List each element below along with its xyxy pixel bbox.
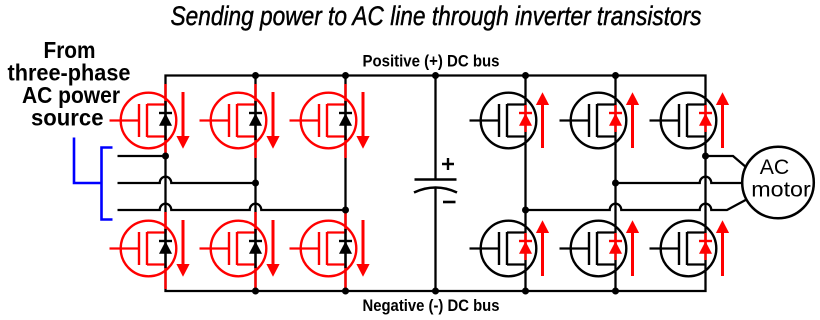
transistor Q12 (lower right bank) — [650, 221, 717, 277]
current arrow at Q1 (down) — [176, 92, 189, 149]
junction on positive bus x=435.5 — [432, 72, 439, 79]
junction motor lead / leg 6 — [702, 153, 709, 160]
junction on negative bus x=435.5 — [432, 288, 439, 295]
wire: phase A line — [118, 155, 166, 157]
current arrow at Q6 (down) — [356, 220, 369, 277]
capacitor C1 top plate — [415, 178, 457, 181]
capacitor C1 curved plate — [414, 188, 457, 193]
wire: motor lead from leg 6 — [706, 156, 747, 168]
current arrow at Q7 (up) — [536, 92, 549, 148]
body diode of transistor Q1 (red, upper left bank) — [159, 101, 172, 140]
junction on positive bus x=255.5 — [252, 72, 259, 79]
svg-text:AC: AC — [760, 155, 790, 179]
transistor Q6 (red, lower left bank) — [290, 212, 357, 289]
wire: motor lead from leg 4 — [526, 200, 747, 211]
body diode of transistor Q12 (lower right bank) — [699, 233, 712, 260]
junction on positive bus x=615.5 — [612, 72, 619, 79]
wire: capacitor leg lower — [434, 188, 436, 291]
body diode of transistor Q10 (lower right bank) — [519, 233, 532, 260]
junction on negative bus x=255.5 — [252, 288, 259, 295]
wire: leg 4 vertical — [524, 76, 526, 292]
current arrow at Q8 (up) — [626, 92, 639, 148]
current arrow at Q2 (down) — [266, 92, 279, 149]
AC motor — [742, 147, 814, 219]
capacitor C1 polarity + — [442, 158, 454, 170]
body diode of transistor Q6 (red, lower left bank) — [339, 229, 352, 268]
body diode of transistor Q11 (lower right bank) — [609, 233, 622, 260]
wire: negative DC bus — [166, 277, 706, 292]
current arrow at Q9 (up) — [716, 92, 729, 148]
wire: leg 5 vertical — [614, 76, 616, 292]
label: From three-phase AC power source — [8, 37, 131, 131]
capacitor C1 polarity - — [443, 201, 456, 204]
svg-text:motor: motor — [751, 178, 811, 202]
junction motor lead / leg 4 — [522, 207, 529, 214]
wire: leg 3 vertical — [344, 76, 346, 292]
junction phase B / leg 2 — [252, 180, 259, 187]
transistor Q1 (red, upper left bank) — [110, 84, 177, 158]
body diode of transistor Q7 (upper right bank) — [519, 105, 532, 132]
three-phase source cable (blue) — [74, 138, 113, 220]
current arrow at Q11 (up) — [626, 220, 639, 276]
svg-text:Sending power to AC line throu: Sending power to AC line through inverte… — [171, 1, 702, 31]
transistor Q11 (lower right bank) — [560, 221, 627, 277]
body diode of transistor Q4 (red, lower left bank) — [159, 229, 172, 268]
body diode of transistor Q3 (red, upper left bank) — [339, 101, 352, 140]
svg-text:source: source — [31, 105, 104, 131]
transistor Q5 (red, lower left bank) — [200, 212, 267, 289]
svg-text:Negative (-) DC bus: Negative (-) DC bus — [363, 296, 500, 315]
body diode of transistor Q5 (red, lower left bank) — [249, 229, 262, 268]
transistor Q4 (red, lower left bank) — [110, 212, 177, 289]
wire: positive DC bus — [166, 76, 706, 93]
wire: leg 2 vertical — [254, 76, 256, 292]
junction on negative bus x=525.5 — [522, 288, 529, 295]
wire: leg 6 vertical — [704, 93, 706, 277]
wire: motor lead from leg 5 — [616, 177, 742, 183]
current arrow at Q12 (up) — [716, 220, 729, 276]
current arrow at Q10 (up) — [536, 220, 549, 276]
transistor Q8 (upper right bank) — [560, 93, 627, 149]
junction on negative bus x=615.5 — [612, 288, 619, 295]
junction phase C / leg 3 — [342, 207, 349, 214]
transistor Q10 (lower right bank) — [470, 221, 537, 277]
transistor Q3 (red, upper left bank) — [290, 84, 357, 158]
junction on positive bus x=345.5 — [342, 72, 349, 79]
svg-text:Positive (+) DC bus: Positive (+) DC bus — [363, 52, 500, 71]
junction phase A / leg 1 — [162, 153, 169, 160]
transistor Q2 (red, upper left bank) — [200, 84, 267, 158]
wire: phase B line — [118, 177, 256, 183]
wire: phase C line — [118, 204, 346, 210]
current arrow at Q5 (down) — [266, 220, 279, 277]
junction on negative bus x=345.5 — [342, 288, 349, 295]
transistor Q9 (upper right bank) — [650, 93, 717, 149]
body diode of transistor Q9 (upper right bank) — [699, 105, 712, 132]
wire: capacitor leg upper — [434, 76, 436, 180]
current arrow at Q3 (down) — [356, 92, 369, 149]
wire: leg 1 vertical — [164, 93, 166, 277]
current arrow at Q4 (down) — [176, 220, 189, 277]
junction motor lead / leg 5 — [612, 180, 619, 187]
junction on positive bus x=525.5 — [522, 72, 529, 79]
transistor Q7 (upper right bank) — [470, 93, 537, 149]
body diode of transistor Q8 (upper right bank) — [609, 105, 622, 132]
body diode of transistor Q2 (red, upper left bank) — [249, 101, 262, 140]
